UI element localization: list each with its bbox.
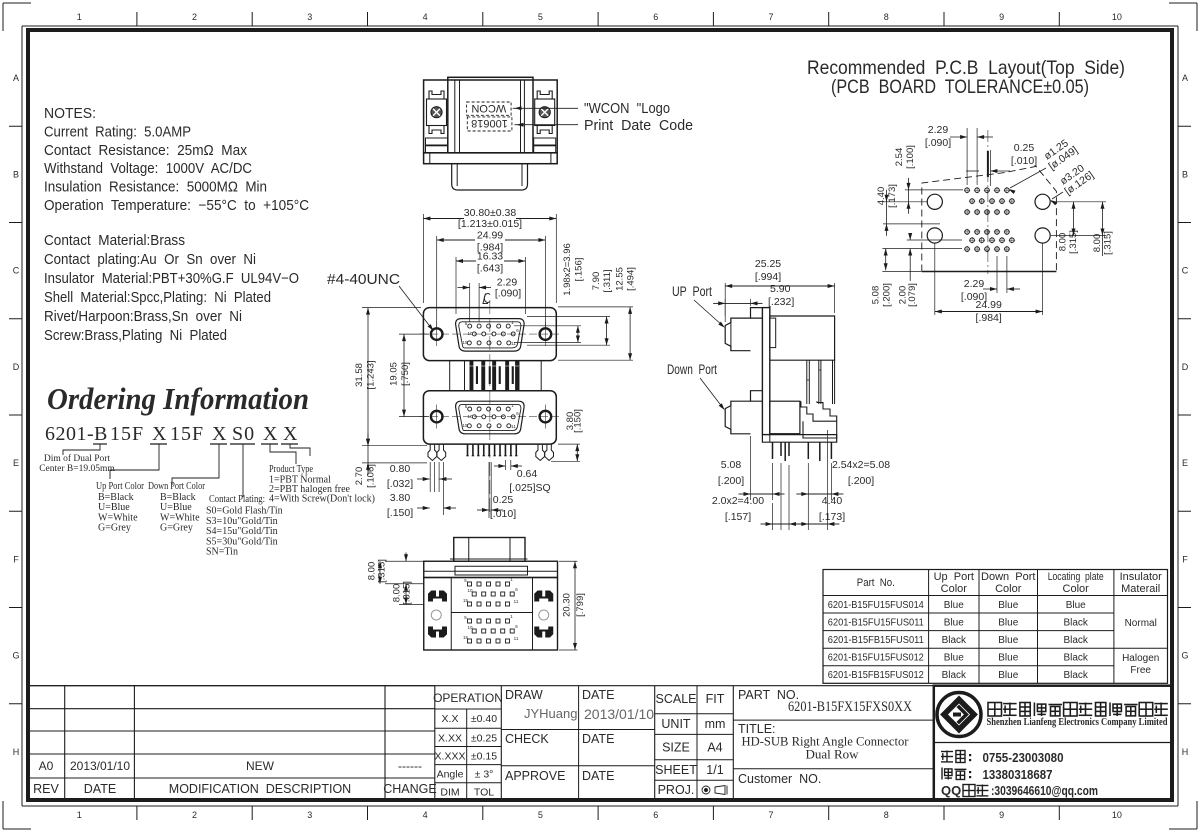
svg-text:[.311]: [.311] — [602, 269, 613, 292]
part no / title block — [733, 688, 934, 786]
svg-text:24.99: 24.99 — [976, 299, 1002, 311]
svg-text:15F: 15F — [170, 423, 204, 445]
svg-text:11: 11 — [514, 599, 519, 604]
svg-text:[.799]: [.799] — [575, 593, 586, 617]
svg-text:2: 2 — [192, 12, 197, 22]
dim 3.80 right — [477, 409, 584, 520]
svg-text:Black: Black — [1063, 670, 1088, 681]
svg-text:G=Grey: G=Grey — [98, 523, 131, 534]
UP Port label — [667, 258, 890, 530]
side view — [725, 308, 837, 461]
svg-text:0.64: 0.64 — [517, 468, 538, 480]
svg-text:4=With Screw(Don't lock): 4=With Screw(Don't lock) — [269, 494, 375, 505]
svg-text:±0.25: ±0.25 — [471, 732, 497, 744]
company logo — [937, 693, 981, 737]
down port barrel — [725, 401, 750, 434]
svg-text:X.XX: X.XX — [438, 732, 462, 744]
svg-text:20.30: 20.30 — [562, 593, 573, 617]
svg-text:[.200]: [.200] — [848, 475, 874, 487]
svg-text:Print Date Code: Print Date Code — [584, 117, 693, 134]
svg-text:Black: Black — [942, 635, 967, 646]
dim 30.80 — [327, 207, 556, 331]
svg-text:6201-B15FU15FUS011: 6201-B15FU15FUS011 — [828, 616, 924, 628]
svg-text:DATE: DATE — [84, 782, 116, 796]
svg-text:MODIFICATION DESCRIPTION: MODIFICATION DESCRIPTION — [169, 782, 351, 796]
svg-text:OPERATION: OPERATION — [433, 691, 503, 705]
svg-text:Down Port Color: Down Port Color — [148, 481, 206, 492]
svg-text::3039646610@qq.com: :3039646610@qq.com — [991, 783, 1098, 798]
svg-text:[.032]: [.032] — [387, 478, 413, 490]
svg-text:E: E — [1182, 458, 1188, 468]
svg-text:[.079]: [.079] — [907, 283, 918, 307]
pcb mount holes — [927, 194, 942, 209]
svg-text:[.200]: [.200] — [882, 283, 893, 307]
bottom pin row — [467, 444, 469, 456]
svg-text:Blue: Blue — [944, 600, 964, 611]
svg-text:5: 5 — [538, 12, 543, 22]
svg-text:C: C — [13, 266, 20, 276]
svg-text:2.70: 2.70 — [354, 467, 365, 486]
svg-text:Withstand Voltage: 1000V AC: Withstand Voltage: 1000V AC/DC — [44, 161, 252, 177]
svg-text:SIZE: SIZE — [662, 741, 690, 755]
logo label leaders — [513, 107, 578, 109]
svg-text:mm: mm — [705, 717, 726, 731]
svg-text:6201-B15FU15FUS012: 6201-B15FU15FUS012 — [828, 652, 924, 664]
svg-text:(PCB BOARD TOLERANCE±0.05): (PCB BOARD TOLERANCE±0.05) — [831, 76, 1089, 98]
svg-text:[.173]: [.173] — [819, 511, 845, 523]
svg-text:24.99: 24.99 — [477, 230, 503, 242]
svg-text:Part No.: Part No. — [857, 577, 895, 589]
svg-text:Halogen: Halogen — [1122, 653, 1159, 664]
company block — [934, 686, 1172, 800]
svg-text:6201-B15FB15FUS012: 6201-B15FB15FUS012 — [828, 669, 924, 681]
svg-text:2.54x2=5.08: 2.54x2=5.08 — [832, 459, 890, 471]
svg-text:X.XXX: X.XXX — [435, 751, 466, 763]
svg-text:± 3°: ± 3° — [475, 769, 494, 781]
svg-text:B: B — [13, 169, 19, 179]
svg-text:UP Port: UP Port — [672, 284, 712, 299]
svg-text:SCALE: SCALE — [656, 692, 697, 706]
pcb layout title — [807, 57, 1125, 324]
svg-text:0.25: 0.25 — [1014, 142, 1035, 154]
svg-text:A: A — [1182, 73, 1188, 83]
svg-text:X: X — [152, 423, 167, 445]
svg-text:S0: S0 — [232, 423, 255, 445]
svg-text:[.010]: [.010] — [1011, 155, 1037, 167]
screw clip — [427, 99, 447, 126]
svg-text:Color: Color — [995, 583, 1022, 595]
side pins — [772, 442, 774, 459]
svg-text:Down Port: Down Port — [667, 362, 717, 377]
svg-text:G=Grey: G=Grey — [160, 523, 193, 534]
svg-text:CHANGE: CHANGE — [383, 782, 436, 796]
svg-text:15: 15 — [462, 340, 468, 345]
svg-text:5: 5 — [538, 810, 543, 820]
svg-text:DIM: DIM — [440, 787, 459, 799]
contact lines — [941, 751, 953, 763]
svg-text:Blue: Blue — [1066, 600, 1086, 611]
svg-text:8: 8 — [884, 810, 889, 820]
svg-text:DATE: DATE — [582, 688, 614, 702]
svg-text:2: 2 — [192, 810, 197, 820]
svg-text:B: B — [94, 423, 107, 445]
svg-text:[.025]SQ: [.025]SQ — [509, 482, 550, 494]
svg-text:[.315]: [.315] — [402, 581, 413, 605]
svg-text:16.33: 16.33 — [477, 251, 503, 263]
svg-text:C: C — [1182, 266, 1189, 276]
svg-text:FIT: FIT — [706, 692, 725, 706]
upper D opening — [456, 319, 524, 352]
svg-text:[.315]: [.315] — [377, 559, 388, 583]
svg-text:10: 10 — [467, 625, 473, 630]
svg-text:Ordering Information: Ordering Information — [47, 381, 309, 416]
svg-text:8: 8 — [884, 12, 889, 22]
svg-text:B: B — [1182, 169, 1188, 179]
svg-text:WCON: WCON — [471, 102, 506, 114]
svg-text:Color: Color — [1063, 583, 1090, 595]
svg-text:Blue: Blue — [998, 635, 1018, 646]
left dims 31.58 19.05 — [354, 308, 456, 519]
svg-text:[.100]: [.100] — [905, 145, 916, 169]
svg-text:X.X: X.X — [442, 713, 459, 725]
pcb centerline — [987, 130, 989, 274]
svg-text:2.29: 2.29 — [928, 124, 949, 136]
svg-text:DATE: DATE — [582, 732, 614, 746]
svg-text:7.90: 7.90 — [591, 272, 602, 291]
svg-text:Contact Resistance: 25mΩ Ma: Contact Resistance: 25mΩ Max — [44, 143, 248, 159]
svg-text:15: 15 — [463, 635, 469, 640]
svg-text:3: 3 — [307, 12, 312, 22]
svg-text:100618: 100618 — [471, 117, 508, 129]
svg-text:Up Port: Up Port — [934, 571, 974, 583]
svg-text:[.090]: [.090] — [925, 137, 951, 149]
svg-text:10: 10 — [1112, 810, 1122, 820]
staircase — [801, 401, 837, 421]
svg-text:15: 15 — [463, 598, 469, 603]
svg-text:CHECK: CHECK — [505, 732, 549, 746]
up port barrel — [725, 318, 750, 351]
svg-text:[.090]: [.090] — [495, 288, 521, 300]
svg-text:15F: 15F — [110, 423, 144, 445]
svg-text:Normal: Normal — [1125, 618, 1157, 629]
svg-text:5.08: 5.08 — [870, 286, 881, 305]
notes text — [44, 106, 309, 344]
svg-text:"WCON "Logo: "WCON "Logo — [584, 100, 670, 117]
svg-text:0.25: 0.25 — [493, 494, 514, 506]
svg-text:2.29: 2.29 — [964, 278, 985, 290]
svg-text:A4: A4 — [707, 741, 722, 755]
svg-text:Up Port Color: Up Port Color — [96, 481, 145, 492]
svg-text:Contact plating:Au Or Sn o: Contact plating:Au Or Sn over Ni — [44, 252, 256, 268]
svg-text:Product Type: Product Type — [269, 464, 313, 475]
screw clip — [535, 99, 555, 126]
parts table — [823, 570, 1168, 684]
svg-text:Insulation Resistance: 5000M: Insulation Resistance: 5000MΩ Min — [44, 180, 267, 196]
svg-text:[.994]: [.994] — [755, 271, 781, 283]
svg-text:9: 9 — [999, 810, 1004, 820]
pcb pin holes — [965, 188, 970, 193]
svg-text:4: 4 — [423, 12, 428, 22]
svg-text:Down Port: Down Port — [981, 571, 1035, 583]
svg-text:E: E — [13, 458, 19, 468]
svg-text:2013/01/10: 2013/01/10 — [70, 759, 130, 773]
svg-text:Blue: Blue — [944, 653, 964, 664]
svg-text:UNIT: UNIT — [661, 717, 691, 731]
svg-text:------: ------ — [398, 759, 422, 773]
svg-text:G: G — [12, 651, 19, 661]
svg-text:9: 9 — [999, 12, 1004, 22]
svg-text:3.80: 3.80 — [390, 492, 411, 504]
svg-text:Contact Material:Brass: Contact Material:Brass — [44, 233, 185, 249]
svg-text:REV: REV — [33, 782, 59, 796]
bottom body — [424, 578, 558, 651]
svg-text:13380318687: 13380318687 — [983, 767, 1053, 782]
svg-text:7: 7 — [768, 12, 773, 22]
svg-text:[.643]: [.643] — [477, 263, 503, 275]
svg-text:Contact Plating:: Contact Plating: — [209, 494, 265, 505]
svg-text:Insulator Material:PBT+30%G.F: Insulator Material:PBT+30%G.F UL94V−O — [44, 271, 299, 287]
ordering information title — [39, 381, 375, 558]
svg-text:±0.15: ±0.15 — [471, 751, 497, 763]
svg-text:Center B=19.05mm: Center B=19.05mm — [39, 464, 115, 474]
svg-text:7: 7 — [768, 810, 773, 820]
svg-text:6201-B15FX15FXS0XX: 6201-B15FX15FXS0XX — [788, 699, 912, 715]
svg-text:X: X — [283, 423, 298, 445]
svg-text:[.173]: [.173] — [887, 184, 898, 208]
projection symbols — [702, 786, 710, 794]
svg-text:[.494]: [.494] — [626, 267, 637, 291]
lower D opening — [456, 401, 524, 434]
scale/unit/size/sheet/proj block — [655, 686, 734, 800]
svg-text:10: 10 — [1112, 12, 1122, 22]
svg-text:6201-B15FB15FUS011: 6201-B15FB15FUS011 — [828, 634, 924, 646]
pcb dashed outline — [922, 166, 1057, 271]
L foot — [762, 435, 836, 443]
svg-text:NEW: NEW — [246, 759, 275, 773]
bottom flange band — [424, 561, 558, 577]
svg-text:X: X — [212, 423, 227, 445]
svg-text:DATE: DATE — [582, 769, 614, 783]
svg-text:Current Rating: 5.0AMP: Current Rating: 5.0AMP — [44, 124, 191, 140]
lower flange — [423, 391, 556, 444]
svg-text:Angle: Angle — [437, 769, 464, 781]
svg-text:[1.213±0.015]: [1.213±0.015] — [458, 218, 522, 230]
svg-text:4: 4 — [423, 810, 428, 820]
svg-text:5.08: 5.08 — [721, 459, 742, 471]
svg-text:1.98x2=3.96: 1.98x2=3.96 — [562, 243, 573, 296]
svg-text:#4-40UNC: #4-40UNC — [327, 272, 400, 288]
svg-text:X: X — [263, 423, 278, 445]
svg-text:Blue: Blue — [998, 617, 1018, 628]
svg-text:Shenzhen Lianfeng Electronics: Shenzhen Lianfeng Electronics Company Li… — [987, 717, 1168, 728]
svg-text:1: 1 — [77, 810, 82, 820]
svg-text:1/1: 1/1 — [706, 763, 723, 777]
svg-text:F: F — [1182, 554, 1188, 564]
svg-text:±0.40: ±0.40 — [471, 713, 497, 725]
svg-text:6201-: 6201- — [45, 423, 94, 445]
svg-text:[1.243]: [1.243] — [366, 360, 377, 389]
connector rear view — [424, 77, 693, 190]
centerline symbol — [483, 294, 490, 304]
svg-text:Screw:Brass,Plating Ni Plate: Screw:Brass,Plating Ni Plated — [44, 328, 227, 344]
svg-text:Insulator: Insulator — [1120, 571, 1163, 583]
svg-text:SN=Tin: SN=Tin — [206, 547, 238, 558]
right dims — [514, 243, 637, 360]
svg-text:11: 11 — [511, 424, 516, 429]
company chinese name (pseudo glyphs) — [988, 703, 1002, 717]
svg-text:Operation Temperature: −55°C: Operation Temperature: −55°C to +105°C — [44, 198, 309, 214]
svg-text:10: 10 — [467, 588, 473, 593]
svg-text:Blue: Blue — [944, 617, 964, 628]
svg-text:[.984]: [.984] — [976, 312, 1002, 324]
svg-text:Dim of Dual Port: Dim of Dual Port — [44, 453, 111, 464]
svg-text:6: 6 — [653, 12, 658, 22]
svg-text:4.40: 4.40 — [822, 495, 843, 507]
front view dual port — [419, 300, 561, 516]
svg-text:2.0x2=4.00: 2.0x2=4.00 — [712, 495, 764, 507]
svg-text:Black: Black — [1063, 617, 1088, 628]
svg-text:2.54: 2.54 — [894, 148, 905, 167]
svg-text:19.05: 19.05 — [389, 362, 400, 386]
svg-text:TOL: TOL — [474, 787, 494, 799]
svg-text:SHEET: SHEET — [655, 763, 697, 777]
svg-text:NOTES:: NOTES: — [44, 106, 96, 122]
draw/check/approve block — [501, 686, 654, 800]
svg-text:H: H — [13, 747, 20, 757]
svg-text:[.156]: [.156] — [573, 258, 584, 282]
svg-text:[.315]: [.315] — [1103, 231, 1114, 255]
WCON logo box — [467, 102, 512, 115]
svg-text:JYHuang: JYHuang — [524, 706, 577, 721]
bottom pin fields — [468, 582, 472, 586]
svg-text:Black: Black — [1063, 653, 1088, 664]
date code box — [467, 117, 512, 131]
svg-text:2013/01/10: 2013/01/10 — [584, 706, 654, 722]
svg-text:[.232]: [.232] — [768, 296, 794, 308]
svg-text:[.150]: [.150] — [573, 409, 584, 433]
svg-text:0.80: 0.80 — [390, 463, 411, 475]
lower screw holes — [431, 411, 443, 423]
svg-text:[.150]: [.150] — [387, 507, 413, 519]
board lock legs — [428, 444, 437, 460]
svg-text:A0: A0 — [39, 759, 54, 773]
svg-text:5.90: 5.90 — [770, 283, 791, 295]
svg-text:Color: Color — [941, 583, 968, 595]
svg-text:Black: Black — [1063, 635, 1088, 646]
svg-text:Materail: Materail — [1121, 583, 1160, 595]
svg-text:Free: Free — [1130, 665, 1151, 676]
svg-text:QQ: QQ — [941, 783, 961, 798]
svg-text:31.58: 31.58 — [354, 363, 365, 387]
svg-text:Rivet/Harpoon:Brass,Sn over: Rivet/Harpoon:Brass,Sn over Ni — [44, 309, 242, 325]
svg-text:Blue: Blue — [998, 600, 1018, 611]
svg-text:25.25: 25.25 — [755, 258, 781, 270]
svg-text:[.157]: [.157] — [725, 511, 751, 523]
down port rear body — [770, 401, 800, 434]
svg-text:10: 10 — [467, 331, 473, 336]
svg-text:Dual Row: Dual Row — [805, 747, 859, 762]
upper screw holes — [431, 328, 443, 340]
svg-text:11: 11 — [511, 341, 516, 346]
svg-text:Customer NO.: Customer NO. — [738, 772, 821, 786]
pcb dia labels — [1040, 135, 1080, 173]
svg-text:Blue: Blue — [998, 653, 1018, 664]
svg-text:12.55: 12.55 — [615, 267, 626, 291]
svg-text:Black: Black — [942, 670, 967, 681]
svg-text:0755-23003080: 0755-23003080 — [983, 750, 1064, 765]
svg-text:11: 11 — [514, 636, 519, 641]
bottom view — [424, 538, 558, 651]
svg-text:[.200]: [.200] — [718, 475, 744, 487]
svg-text:G: G — [1181, 651, 1188, 661]
revision table — [28, 686, 1172, 800]
insulator body — [770, 316, 835, 360]
svg-text:D: D — [1182, 362, 1189, 372]
svg-text:1: 1 — [77, 12, 82, 22]
operation tolerance table — [433, 686, 503, 800]
svg-text:H: H — [1182, 747, 1189, 757]
svg-text:Blue: Blue — [998, 670, 1018, 681]
bottom view dims — [367, 553, 587, 651]
svg-text:8.00: 8.00 — [1092, 234, 1103, 253]
svg-text:Locating plate: Locating plate — [1048, 571, 1104, 583]
svg-text:[.750]: [.750] — [400, 362, 411, 386]
svg-text:F: F — [13, 554, 19, 564]
svg-text:DRAW: DRAW — [505, 688, 543, 702]
svg-text:15: 15 — [462, 423, 468, 428]
svg-text:PROJ.: PROJ. — [658, 783, 695, 797]
svg-text:3: 3 — [307, 810, 312, 820]
svg-text:D: D — [13, 362, 20, 372]
svg-text:6: 6 — [653, 810, 658, 820]
svg-text:Shell Material:Spcc,Plating:: Shell Material:Spcc,Plating: Ni Plated — [44, 290, 271, 306]
middle interconnect pins — [449, 361, 451, 391]
svg-text:A: A — [13, 73, 19, 83]
svg-text:APPROVE: APPROVE — [505, 769, 565, 783]
svg-text:6201-B15FU15FUS014: 6201-B15FU15FUS014 — [828, 599, 924, 611]
